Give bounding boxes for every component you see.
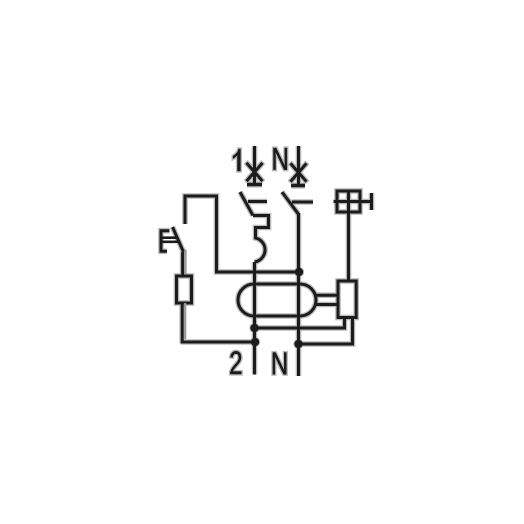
current transformer W1 (toroidal core) bbox=[238, 284, 316, 316]
contact S1a (phase pole switch contact) bbox=[240, 192, 267, 216]
trip relay K1 (residual current release coil) bbox=[338, 281, 356, 318]
test button T (push-button actuator) bbox=[161, 227, 184, 252]
wire relay pin B to neutral node bbox=[299, 318, 353, 345]
CT secondary link (to trip relay) bbox=[316, 295, 339, 304]
overcurrent release F1 (thermal-magnetic element) bbox=[253, 216, 269, 263]
label N top (neutral terminal) bbox=[274, 148, 287, 170]
wire test-circuit top branch (fixed contact up-over to neutral) bbox=[185, 196, 299, 272]
wire trip mechanism to relay bbox=[347, 191, 350, 281]
label 2 (bottom phase terminal) bbox=[230, 351, 241, 374]
node: test line to neutral bbox=[295, 268, 303, 276]
terminal N (top incoming neutral terminal) bbox=[291, 146, 306, 186]
wire button to resistor (with scan shadow) bbox=[183, 250, 186, 277]
node: resistor branch on phase bbox=[251, 338, 259, 346]
label N bottom (neutral terminal) bbox=[273, 353, 286, 375]
label 1 (top phase terminal) bbox=[233, 149, 240, 171]
wire resistor to phase junction (with scan shadow) bbox=[181, 303, 255, 344]
trip mechanism symbol (crossed square with actuator bar) bbox=[334, 191, 372, 212]
resistor R (test resistor) bbox=[177, 276, 192, 303]
soft scan halo layer bbox=[161, 146, 372, 376]
terminal 1 (top incoming phase terminal) bbox=[247, 146, 262, 185]
wire relay pin A to phase node bbox=[255, 318, 345, 329]
node: relay pin A on phase bbox=[250, 324, 258, 332]
node: relay pin B on neutral bbox=[294, 340, 302, 348]
contact S1b (neutral pole switch contact) bbox=[282, 192, 313, 214]
wire neutral pole vertical (down to bottom N terminal) bbox=[297, 213, 300, 376]
wire phase pole vertical (through CT down to terminal 2) bbox=[253, 262, 256, 375]
